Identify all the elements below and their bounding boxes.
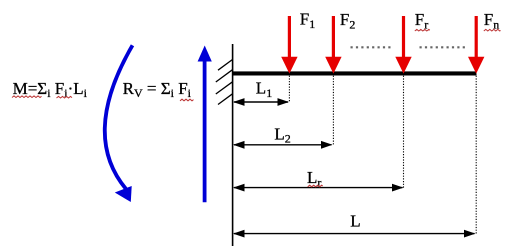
- svg-text:Fr: Fr: [415, 10, 428, 31]
- ellipsis dots between F2 and Fr: [351, 46, 394, 48]
- moment arrow M (blue arc): [105, 45, 133, 202]
- projection dotted line at F2: [332, 76, 334, 145]
- force arrow F1: [281, 16, 297, 74]
- spellcheck squiggle under Fr: [415, 29, 430, 31]
- beam: [233, 71, 477, 75]
- force arrow Fr: [395, 16, 411, 74]
- label L1: [256, 79, 272, 100]
- reaction arrow RV (blue, upward): [198, 46, 212, 203]
- svg-text:RV = Σi Fi: RV = Σi Fi: [123, 79, 192, 100]
- svg-text:L: L: [350, 212, 360, 231]
- force arrow Fn: [468, 16, 484, 74]
- label Lr: [307, 168, 321, 189]
- dimension line L2: [233, 141, 333, 149]
- dimension line L1: [233, 98, 289, 106]
- equation M = sum Fi Li: [13, 79, 88, 100]
- label Fn: [484, 10, 499, 31]
- label F1: [300, 10, 315, 31]
- svg-text:F1: F1: [300, 10, 315, 31]
- label Fr: [415, 10, 428, 31]
- projection dotted line at Fr: [403, 76, 405, 188]
- equation RV = sum Fi: [123, 79, 192, 100]
- projection dotted line at Fn: [475, 76, 477, 234]
- svg-text:L1: L1: [256, 79, 272, 100]
- label L: [350, 212, 360, 231]
- label F2: [340, 10, 355, 31]
- spellcheck squiggle under Fi (M equation): [57, 96, 73, 98]
- dimension line L: [233, 230, 476, 238]
- fixed support wall: [232, 44, 234, 246]
- svg-text:Fn: Fn: [484, 10, 499, 31]
- spellcheck squiggle under Fn: [484, 29, 501, 31]
- svg-text:L2: L2: [274, 124, 290, 145]
- force arrow F2: [325, 16, 341, 74]
- spellcheck squiggle under Lr: [308, 185, 323, 187]
- wall hatch marks: [216, 60, 233, 105]
- svg-text:F2: F2: [340, 10, 355, 31]
- ellipsis dots between Fr and Fn: [420, 46, 467, 48]
- projection dotted line at F1: [288, 76, 290, 103]
- dimension line Lr: [233, 184, 404, 192]
- label L2: [274, 124, 290, 145]
- spellcheck squiggle under M=Si: [12, 96, 42, 98]
- spellcheck squiggle under Fi (RV equation): [180, 99, 194, 101]
